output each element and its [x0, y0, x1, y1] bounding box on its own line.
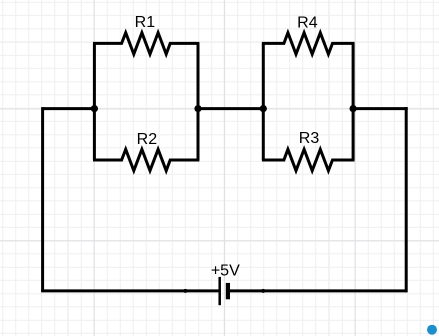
- wire pair1 right column: [197, 43, 200, 160]
- resistor R1: [93, 33, 199, 54]
- node D junction dot: [350, 105, 357, 112]
- wire left rail vertical: [41, 107, 44, 291]
- resistor R4: [262, 33, 355, 54]
- resistor R2: [93, 149, 199, 170]
- node A junction dot: [91, 105, 98, 112]
- UI marker blue dot: [427, 325, 437, 335]
- wire joint dot bottom right: [261, 289, 265, 293]
- svg-text:+5V: +5V: [211, 262, 240, 279]
- wire bottom left to battery: [41, 289, 220, 292]
- wire node B to node C: [198, 107, 263, 110]
- node C junction dot: [260, 105, 267, 112]
- battery V1 positive plate: [218, 277, 221, 305]
- svg-text:R4: R4: [297, 14, 318, 31]
- wire bottom right from battery: [230, 289, 406, 292]
- wire pair2 left column: [262, 43, 265, 160]
- wire node D to right rail: [353, 107, 408, 110]
- svg-text:R2: R2: [137, 131, 158, 148]
- wire left horizontal to node A: [43, 107, 95, 110]
- svg-text:R3: R3: [299, 130, 320, 147]
- battery V1 negative plate: [226, 283, 230, 299]
- wire pair2 right column: [352, 43, 355, 160]
- wire pair1 left column: [93, 43, 96, 160]
- node B junction dot: [194, 105, 201, 112]
- wire right rail vertical: [405, 107, 408, 292]
- svg-text:R1: R1: [135, 14, 156, 31]
- resistor R3: [262, 149, 355, 170]
- wire joint dot bottom left: [183, 289, 187, 293]
